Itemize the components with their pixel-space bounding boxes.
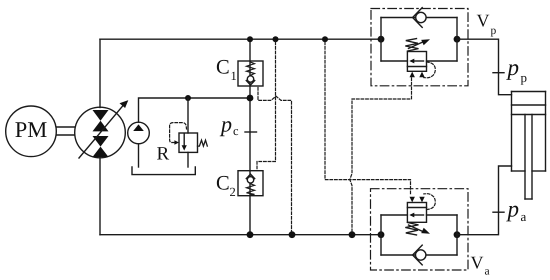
node Va right [454,231,461,238]
wire left rail lower [99,158,101,235]
wire R tank leg [187,152,189,167]
wire charge pump tank leg [138,144,140,167]
svg-text:V: V [477,11,490,31]
node C1 bottom [247,95,254,102]
pilot line C1 from bottom line [258,88,292,232]
variable displacement pump [75,100,129,158]
wire Va output to cylinder [457,166,512,235]
wire Vp top path [381,17,457,19]
counterbalance valve Va [405,194,435,235]
check valve Va [413,245,426,265]
counterbalance valve Vp [405,39,435,78]
pilot line Va remote from top line [325,42,411,195]
svg-text:p: p [506,55,520,80]
node Vp right [454,36,461,43]
svg-text:p: p [491,25,497,37]
wire Va valve path left [381,214,407,216]
wire C1-C2 vertical line [249,39,251,235]
node C1 top [247,36,253,42]
node top line Va pilot [322,36,328,42]
cartridge check valve C2 [238,171,263,196]
C1 value label [216,56,237,83]
wire Va right rail [456,215,458,255]
node charge line to pc line [247,95,253,101]
label Vp [477,11,497,37]
svg-text:a: a [485,265,490,277]
label pc [219,112,239,139]
wire main top line [100,38,381,40]
wire R supply [187,98,189,133]
node at R branch [185,95,191,101]
svg-text:a: a [521,209,527,224]
wire Va left rail [380,215,382,255]
svg-text:c: c [233,124,239,138]
node Va left [378,231,385,238]
label pp [506,55,528,85]
tank [132,167,195,175]
C2 value label [216,173,236,199]
node pc tick [245,131,257,133]
cartridge check valve C1 [238,61,263,86]
svg-text:PM: PM [15,117,48,142]
wire charge pump outlet [139,98,251,122]
relief valve R [170,123,208,153]
node top line C2 pilot [273,36,279,42]
shaft [56,127,75,135]
check valve Vp [413,8,426,28]
svg-text:V: V [471,252,484,272]
enclosure Vp [371,9,468,86]
charge pump [128,122,150,144]
node Vp left [378,36,385,43]
node bottom line C1 pilot [289,231,296,238]
svg-text:C: C [216,56,230,78]
svg-text:1: 1 [231,69,237,83]
enclosure Va [371,189,469,270]
label pa [506,196,527,224]
svg-text:p: p [521,70,528,85]
node pa tick [493,211,504,213]
wire left rail upper [99,39,101,107]
node bottom line Vp drain [349,231,356,238]
label Va [471,252,490,277]
svg-text:p: p [506,196,520,221]
svg-text:R: R [157,143,170,164]
wire main bottom line [100,234,381,236]
wire Va valve path right [427,214,458,216]
node bottom line C2 [247,231,254,238]
pilot line Vp drain to bottom line [350,78,412,232]
wire Va bottom path [381,254,457,256]
wire Vp valve path right [427,60,458,62]
svg-text:2: 2 [230,185,236,199]
pilot line C2 from top line [257,42,276,171]
wire Vp right rail [456,18,458,62]
node pp tick [493,72,504,74]
wire Vp output to cylinder [457,39,512,94]
cylinder [512,92,546,200]
wire Vp left rail [380,18,382,62]
svg-text:p: p [219,112,232,137]
prime mover PM [6,106,57,157]
svg-text:C: C [216,173,230,195]
wire Vp valve path left [381,60,407,62]
